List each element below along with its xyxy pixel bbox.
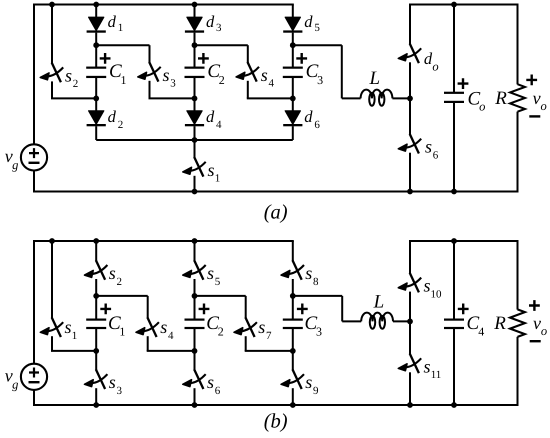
svg-text:2: 2	[219, 73, 225, 87]
wire C1 node to s4 (b)	[96, 295, 148, 297]
switch s6 (b)	[183, 369, 206, 389]
wire C3 node to L (a)	[293, 44, 342, 46]
label + of C1 (b)	[100, 304, 111, 315]
wire s11 lower (b)	[409, 372, 411, 405]
svg-text:7: 7	[266, 330, 272, 342]
switch s3 (a)	[138, 62, 161, 82]
svg-text:4: 4	[216, 119, 222, 131]
switch s4 (a)	[236, 62, 259, 82]
svg-text:6: 6	[314, 119, 320, 131]
svg-text:3: 3	[317, 73, 323, 87]
wire s4 lower (b)	[147, 336, 149, 351]
label + of vo (a)	[526, 75, 537, 86]
wire bottom rail (b)	[33, 404, 519, 406]
svg-text:s: s	[65, 65, 72, 85]
wire s1 upper (a)	[194, 140, 196, 158]
wire s2 lower (a)	[51, 81, 53, 98]
wire stub to diode d1	[95, 5, 97, 19]
svg-text:1: 1	[215, 173, 221, 185]
svg-text:d: d	[206, 107, 215, 126]
wire stub to switch s6 (b)	[194, 351, 196, 370]
wire stub to diode d2	[95, 98, 97, 111]
svg-text:s: s	[160, 317, 167, 337]
switch s10 (b)	[398, 273, 421, 293]
wire R lower (a)	[517, 112, 519, 192]
inductor L (a)	[361, 90, 393, 106]
wire C3 node to L (b)	[293, 295, 342, 297]
wire capacitor C1 to node (b)	[95, 328, 97, 351]
switch do (a)	[398, 44, 421, 64]
wire C2 node to s7 (b)	[195, 295, 246, 297]
wire s1 lower (b)	[51, 336, 53, 351]
wire s11 upper (b)	[409, 321, 411, 354]
svg-text:d: d	[206, 12, 215, 31]
wire diode d5 to node	[292, 33, 294, 46]
node top rail junction x=194.5 (b)	[192, 238, 198, 244]
node top rail junction x=194.5 (a)	[192, 2, 198, 8]
wire diode d6 to bridge rail	[292, 126, 294, 140]
svg-text:(a): (a)	[264, 202, 288, 224]
svg-text:3: 3	[116, 385, 122, 397]
wire R upper (b)	[517, 240, 519, 310]
svg-text:s: s	[109, 372, 116, 392]
diode d2	[87, 111, 106, 127]
node bottom rail junction x=292.8 (b)	[290, 402, 296, 408]
wire s3 lower (a)	[149, 81, 151, 99]
wire stub to switch s5 (b)	[194, 241, 196, 261]
switch s3 (b)	[85, 369, 108, 389]
svg-text:s: s	[207, 160, 214, 180]
wire bridge bottom rail (a)	[96, 139, 293, 141]
svg-text:s: s	[305, 372, 312, 392]
svg-text:L: L	[373, 291, 385, 312]
node L output (b)	[407, 319, 413, 325]
wire stub to switch s8 (b)	[292, 241, 294, 261]
svg-text:6: 6	[433, 150, 439, 162]
svg-text:4: 4	[269, 78, 275, 90]
svg-text:3: 3	[216, 22, 222, 34]
wire switch s6 to bottom rail (b)	[194, 388, 196, 405]
svg-text:2: 2	[116, 276, 122, 288]
node bottom rail junction x=194.5 (b)	[192, 402, 198, 408]
switch s4 (b)	[136, 317, 159, 337]
svg-text:s: s	[423, 276, 430, 296]
node top rail junction x=96.2 (a)	[93, 2, 99, 8]
svg-text:s: s	[423, 356, 430, 376]
svg-text:4: 4	[478, 324, 484, 338]
node C1 top junction	[93, 42, 99, 48]
node C1 bottom junction	[93, 96, 99, 102]
wire switch s8 to node (b)	[292, 279, 294, 296]
wire output top rail (a)	[409, 4, 519, 6]
svg-text:3: 3	[316, 324, 322, 338]
diode d4	[185, 111, 204, 127]
node s1 top junction (b)	[49, 238, 55, 244]
wire node to capacitor C3	[292, 45, 294, 68]
wire stub to diode d5	[292, 5, 294, 19]
wire diode d4 to bridge rail	[194, 126, 196, 140]
diode d5	[283, 17, 302, 33]
svg-text:o: o	[479, 100, 485, 114]
svg-text:11: 11	[431, 369, 442, 381]
wire diode d1 to node	[95, 33, 97, 46]
label + of vo (b)	[529, 300, 540, 311]
node Co bottom (a)	[451, 189, 457, 195]
wire C4 upper (b)	[453, 241, 455, 320]
wire stub to switch s2 (b)	[95, 241, 97, 261]
label + of C1	[100, 53, 111, 64]
wire switch s2 to node (b)	[95, 279, 97, 296]
diode d6	[283, 111, 302, 127]
wire node to capacitor C1 (b)	[95, 296, 97, 320]
wire s4 lower (a)	[247, 81, 249, 99]
wire C1 node to s3 (a)	[96, 44, 149, 46]
switch s7 (b)	[234, 317, 257, 337]
wire s6 upper (a)	[409, 98, 411, 134]
node bottom rail junction x=96.2 (b)	[93, 402, 99, 408]
wire R upper (a)	[517, 4, 519, 85]
svg-text:s: s	[258, 317, 265, 337]
switch s2 (a)	[40, 63, 63, 83]
svg-text:8: 8	[313, 276, 319, 288]
wire vg to bottom rail (b)	[33, 390, 35, 405]
svg-text:s: s	[305, 263, 312, 283]
wire diode d3 to node	[194, 33, 196, 46]
wire top rail (b)	[34, 240, 294, 242]
node s1 bottom rail (a)	[192, 189, 198, 195]
resistor R (a)	[510, 84, 525, 112]
wire node to capacitor C2	[194, 45, 196, 68]
wire stub to switch s9 (b)	[292, 351, 294, 370]
label + of C3 (b)	[297, 304, 308, 315]
wire s10 upper (b)	[409, 241, 411, 274]
wire do upper (a)	[409, 5, 411, 45]
capacitor C2 (b)	[185, 319, 205, 330]
capacitor Co (a)	[444, 92, 464, 103]
switch s8 (b)	[281, 260, 304, 280]
wire top rail (a)	[34, 4, 294, 6]
wire s2 upper (a)	[51, 5, 53, 64]
node C2 top junction (b)	[192, 293, 198, 299]
wire R lower (b)	[517, 337, 519, 405]
switch s1 (a)	[183, 157, 206, 177]
svg-text:d: d	[304, 107, 313, 126]
svg-text:1: 1	[119, 324, 125, 338]
node L output (a)	[407, 96, 413, 102]
svg-text:s: s	[207, 372, 214, 392]
capacitor C4 (b)	[444, 319, 464, 330]
wire stub to diode d4	[194, 98, 196, 111]
svg-text:v: v	[533, 88, 541, 108]
label + of C2	[198, 53, 209, 64]
node C4 bottom (b)	[451, 402, 457, 408]
diode d3	[185, 17, 204, 33]
svg-text:L: L	[369, 68, 381, 89]
switch s1 (b)	[40, 317, 63, 337]
voltage source vg (b)	[21, 364, 47, 390]
svg-text:s: s	[64, 317, 71, 337]
wire s6 lower (a)	[409, 153, 411, 192]
node s2 top junction (a)	[49, 2, 55, 8]
capacitor C3	[283, 67, 303, 78]
resistor R (b)	[510, 309, 525, 337]
wire s7 lower (b)	[245, 336, 247, 351]
wire C4 lower (b)	[453, 328, 455, 405]
svg-text:s: s	[207, 263, 214, 283]
svg-text:2: 2	[73, 78, 79, 90]
wire switch s9 to bottom rail (b)	[292, 388, 294, 405]
svg-text:R: R	[493, 313, 506, 334]
wire left rail (b)	[33, 240, 35, 364]
svg-text:3: 3	[170, 78, 176, 90]
svg-text:9: 9	[313, 385, 319, 397]
svg-text:s: s	[162, 65, 169, 85]
node s11 bottom rail (b)	[407, 402, 413, 408]
node C2 bottom junction	[192, 96, 198, 102]
capacitor C3 (b)	[283, 319, 303, 330]
svg-text:d: d	[304, 12, 313, 31]
label + of Co (a)	[458, 78, 469, 89]
wire do lower (a)	[409, 62, 411, 98]
label - of vo (a)	[529, 115, 540, 117]
node C2 bottom junction (b)	[192, 348, 198, 354]
label + of C4 (b)	[458, 304, 469, 315]
wire s1 upper (b)	[51, 241, 53, 318]
wire diode d2 to bridge rail	[95, 126, 97, 140]
wire node to capacitor C2 (b)	[194, 296, 196, 320]
svg-text:o: o	[540, 99, 546, 113]
wire L to node (b)	[393, 320, 410, 322]
wire capacitor C3 to node (b)	[292, 328, 294, 351]
node s6 bottom rail (a)	[407, 189, 413, 195]
wire Co upper (a)	[453, 5, 455, 94]
node C2 top junction	[192, 42, 198, 48]
svg-text:2: 2	[218, 324, 224, 338]
capacitor C1 (b)	[86, 319, 106, 330]
wire node to capacitor C1	[95, 45, 97, 68]
label + of C2 (b)	[199, 304, 210, 315]
svg-text:s: s	[425, 137, 432, 157]
label + of C3	[296, 53, 307, 64]
node C3 bottom junction	[290, 96, 296, 102]
wire capacitor C1 to node	[95, 76, 97, 98]
node C4 top (b)	[451, 238, 457, 244]
wire vg to bottom rail (a)	[33, 170, 35, 191]
node bridge junction s1 (a)	[192, 137, 198, 143]
svg-text:v: v	[533, 313, 541, 333]
svg-text:d: d	[108, 107, 117, 126]
svg-text:2: 2	[118, 119, 124, 131]
svg-text:o: o	[432, 59, 438, 73]
wire stub to switch s3 (b)	[95, 351, 97, 370]
svg-text:1: 1	[118, 22, 124, 34]
switch s6 (a)	[398, 134, 421, 154]
capacitor C1	[86, 67, 106, 78]
svg-text:1: 1	[121, 73, 127, 87]
node C3 top junction (b)	[290, 293, 296, 299]
svg-text:5: 5	[215, 276, 221, 288]
svg-text:(b): (b)	[264, 411, 288, 433]
wire node to capacitor C3 (b)	[292, 296, 294, 320]
svg-text:o: o	[541, 324, 547, 338]
wire stub to diode d3	[194, 5, 196, 19]
switch s11 (b)	[398, 354, 421, 374]
svg-text:4: 4	[168, 330, 174, 342]
svg-text:d: d	[108, 12, 117, 31]
svg-text:6: 6	[215, 385, 221, 397]
switch s9 (b)	[281, 369, 304, 389]
svg-text:g: g	[12, 158, 18, 172]
node C3 bottom junction (b)	[290, 348, 296, 354]
switch s2 (b)	[85, 260, 108, 280]
node Co top (a)	[451, 2, 457, 8]
switch s5 (b)	[183, 260, 206, 280]
diode d1	[87, 17, 106, 33]
node C3 top junction	[290, 42, 296, 48]
wire switch s3 to bottom rail (b)	[95, 388, 97, 405]
voltage source vg (a)	[21, 144, 47, 170]
wire Co lower (a)	[453, 101, 455, 191]
capacitor C2	[185, 67, 205, 78]
wire capacitor C2 to node	[194, 76, 196, 98]
svg-text:R: R	[494, 88, 507, 109]
svg-text:1: 1	[72, 330, 78, 342]
wire s10 lower (b)	[409, 292, 411, 322]
svg-text:s: s	[109, 263, 116, 283]
svg-text:g: g	[12, 377, 18, 391]
wire capacitor C3 to node	[292, 76, 294, 98]
wire output top rail (b)	[409, 240, 519, 242]
wire stub to diode d6	[292, 98, 294, 111]
wire s1 lower (a)	[194, 176, 196, 192]
svg-text:s: s	[261, 65, 268, 85]
node top rail junction x=96.2 (b)	[93, 238, 99, 244]
wire L to node (a)	[392, 97, 410, 99]
wire C2 node to s4 (a)	[195, 44, 248, 46]
wire bottom rail (a)	[33, 191, 519, 193]
svg-text:10: 10	[431, 288, 443, 300]
inductor L (b)	[361, 313, 393, 329]
svg-text:5: 5	[314, 22, 320, 34]
wire capacitor C2 to node (b)	[194, 328, 196, 351]
wire switch s5 to node (b)	[194, 279, 196, 296]
label - of vo (b)	[530, 340, 541, 342]
node C1 bottom junction (b)	[93, 348, 99, 354]
wire left rail (a)	[33, 4, 35, 145]
node C1 top junction (b)	[93, 293, 99, 299]
